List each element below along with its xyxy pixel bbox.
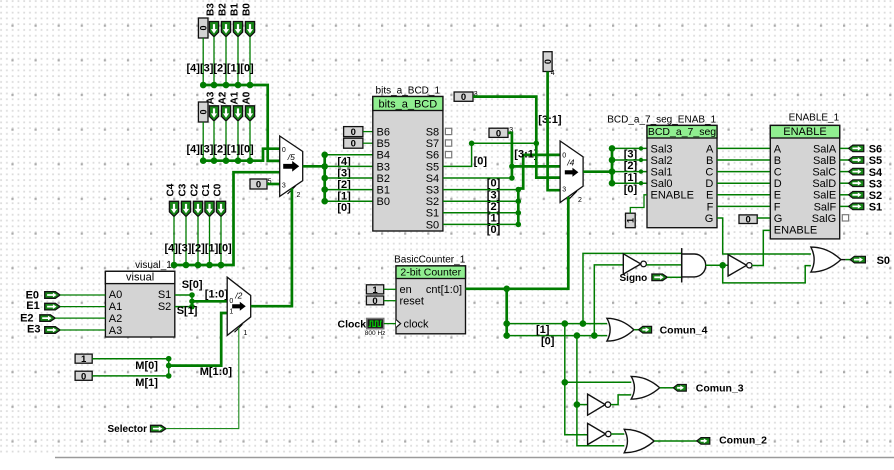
wire const to B6 bbox=[363, 131, 373, 133]
wire const4 to mux2 in3 bbox=[548, 72, 561, 191]
svg-text:S5: S5 bbox=[869, 155, 882, 167]
input pin E0 bbox=[45, 292, 60, 299]
output pin Comun_4 bbox=[639, 326, 652, 333]
svg-text:SalC: SalC bbox=[812, 167, 836, 179]
svg-text:D: D bbox=[774, 178, 782, 190]
wire const3a to mux2 in2 bbox=[473, 97, 560, 178]
junction row2 j1 bbox=[503, 332, 510, 339]
svg-text:0: 0 bbox=[351, 139, 356, 150]
svg-text:Sal1: Sal1 bbox=[651, 167, 673, 179]
svg-text:2: 2 bbox=[578, 197, 582, 204]
output pin S1 bbox=[849, 203, 864, 210]
junction B bus junction x226 bbox=[223, 82, 230, 89]
svg-text:0: 0 bbox=[745, 215, 750, 226]
svg-text:A3: A3 bbox=[109, 325, 122, 337]
svg-text:BasicCounter_1: BasicCounter_1 bbox=[394, 255, 466, 266]
unconnected stub SalG bbox=[842, 215, 848, 221]
svg-text:0: 0 bbox=[372, 296, 377, 307]
svg-text:S7: S7 bbox=[426, 138, 439, 150]
unconnected stub S7 bbox=[445, 140, 451, 146]
svg-text:A0: A0 bbox=[242, 91, 253, 104]
junction M j2 bbox=[166, 363, 172, 369]
svg-text:0: 0 bbox=[351, 127, 356, 138]
wire row bit1 bbox=[507, 323, 608, 325]
svg-text:4: 4 bbox=[551, 70, 555, 77]
wire splitter2 tap [1] bbox=[612, 171, 647, 173]
junction A bus junction x214 bbox=[211, 157, 218, 164]
svg-text:B2: B2 bbox=[218, 3, 229, 16]
subcircuit box BCD_a_7_seg_ENAB_1 bbox=[647, 125, 717, 227]
svg-text:A2: A2 bbox=[109, 313, 122, 325]
junction M j1 bbox=[166, 356, 172, 362]
junction splitter1 junction [4] bbox=[321, 152, 328, 159]
svg-text:SalB: SalB bbox=[813, 155, 836, 167]
svg-text:S0: S0 bbox=[877, 255, 890, 267]
subcircuit box bits_a_BCD_1 bbox=[373, 97, 443, 232]
wire const to G bbox=[757, 217, 770, 219]
junction B bus junction x203.2 bbox=[200, 82, 207, 89]
wire cnt tap spine bbox=[505, 289, 508, 336]
output pin Comun_2 bbox=[697, 438, 710, 445]
svg-text:A2: A2 bbox=[218, 91, 229, 104]
wire net D bbox=[717, 182, 770, 184]
svg-text:reset: reset bbox=[400, 296, 424, 308]
svg-text:M[0]: M[0] bbox=[135, 360, 158, 372]
input pin C2 bbox=[193, 201, 202, 216]
output pin S2 bbox=[849, 192, 864, 199]
output pin S3 bbox=[849, 180, 864, 187]
OR gate OR S0 bbox=[811, 247, 841, 272]
svg-text:A1: A1 bbox=[109, 301, 122, 313]
svg-text:C4: C4 bbox=[166, 183, 177, 196]
wire B2 to bus bbox=[225, 37, 227, 85]
svg-text:S5: S5 bbox=[426, 161, 439, 173]
svg-text:[0]: [0] bbox=[337, 202, 351, 214]
svg-text:[4][3][2][1][0]: [4][3][2][1][0] bbox=[187, 63, 255, 75]
svg-text:/2: /2 bbox=[234, 291, 242, 301]
wire splitter2 tap [0] bbox=[612, 182, 647, 184]
wire C1 to bus bbox=[209, 217, 211, 266]
wire SalX to pin S3 bbox=[840, 182, 849, 184]
wire S2 wire bbox=[175, 306, 192, 308]
wire SalX to pin S2 bbox=[840, 194, 849, 196]
input pin Selector bbox=[151, 425, 167, 432]
svg-text:B1: B1 bbox=[230, 3, 241, 16]
svg-text:B0: B0 bbox=[377, 196, 390, 208]
wire bit1 down to NOT3 bbox=[565, 324, 588, 435]
wire A2 to bus bbox=[225, 121, 227, 161]
svg-text:S6: S6 bbox=[869, 144, 882, 156]
svg-text:visual_1: visual_1 bbox=[135, 260, 172, 271]
wire M merge bbox=[168, 359, 170, 376]
svg-text:0: 0 bbox=[256, 180, 261, 191]
svg-text:Clock: Clock bbox=[338, 319, 367, 331]
wire splitter1 spine bbox=[323, 155, 326, 201]
wire bit0 down to OR Comun_2 bbox=[577, 336, 624, 446]
wire splitter1 tap [1] bbox=[325, 189, 373, 191]
svg-text:S0: S0 bbox=[426, 219, 439, 231]
wire Comun_2 out bbox=[654, 440, 697, 442]
input pin A1 bbox=[233, 106, 242, 121]
AND gate U1 bbox=[682, 248, 706, 282]
svg-text:S4: S4 bbox=[426, 173, 439, 185]
svg-text:800 Hz: 800 Hz bbox=[365, 330, 386, 337]
wire Signo pin to AND bbox=[667, 276, 681, 278]
svg-text:ENABLE: ENABLE bbox=[774, 225, 817, 237]
svg-text:bits_a_BCD: bits_a_BCD bbox=[378, 98, 437, 110]
svg-text:2-bit Counter: 2-bit Counter bbox=[400, 266, 461, 278]
svg-text:[4][3][2][1][0]: [4][3][2][1][0] bbox=[165, 243, 233, 255]
svg-text:3: 3 bbox=[282, 183, 286, 190]
wire net F bbox=[717, 205, 770, 207]
wire M1 wire bbox=[92, 375, 169, 377]
constant Cen1 bbox=[366, 285, 383, 296]
wire splitter2 spine bbox=[611, 148, 614, 183]
wire A1 to bus bbox=[237, 121, 239, 161]
svg-text:S[1]: S[1] bbox=[177, 305, 198, 317]
svg-text:Comun_3: Comun_3 bbox=[696, 383, 744, 395]
svg-text:[0]: [0] bbox=[541, 336, 555, 348]
subcircuit box visual_1 bbox=[105, 271, 174, 337]
svg-text:A0: A0 bbox=[109, 289, 122, 301]
wire S5 riser bbox=[443, 143, 536, 166]
svg-text:bits_a_BCD_1: bits_a_BCD_1 bbox=[376, 86, 441, 97]
svg-text:cnt[1:0]: cnt[1:0] bbox=[426, 284, 462, 296]
wire M0 wire bbox=[92, 358, 169, 360]
svg-text:S2: S2 bbox=[869, 190, 882, 202]
wire splitter1 tap [2] bbox=[325, 177, 373, 179]
unconnected stub S8 bbox=[445, 128, 451, 134]
wire const1 to BCD ENABLE bbox=[630, 195, 647, 213]
input pin B3 bbox=[209, 22, 218, 37]
wire M bus to mux3 bbox=[169, 313, 228, 366]
svg-text:[2]: [2] bbox=[487, 201, 501, 213]
wire const CB4 to bus bbox=[202, 38, 204, 85]
NOT gate N4 (Comun_2) bbox=[588, 423, 611, 444]
NOT gate N1 (Signo path) bbox=[623, 254, 646, 274]
svg-text:[1]: [1] bbox=[536, 324, 550, 336]
input pin E1 bbox=[45, 303, 60, 310]
svg-text:/4: /4 bbox=[566, 157, 574, 167]
svg-text:Comun_4: Comun_4 bbox=[660, 325, 708, 337]
wire B bus bbox=[203, 85, 280, 161]
wire S4 wire bbox=[443, 177, 512, 179]
junction S5 riser corner bbox=[469, 141, 475, 147]
svg-text:visual: visual bbox=[126, 271, 154, 283]
svg-text:B5: B5 bbox=[377, 138, 390, 150]
constant CA4 bbox=[198, 102, 208, 122]
constant CM1 bbox=[75, 354, 92, 365]
wire mux1 output bbox=[303, 165, 325, 168]
wire SalX to pin S4 bbox=[840, 171, 849, 173]
svg-text:B0: B0 bbox=[242, 3, 253, 16]
wire const3b+S4 to mux2 in1 bbox=[512, 165, 560, 168]
junction row2 j2 bbox=[574, 332, 581, 339]
output pin S5 bbox=[849, 157, 864, 164]
svg-text:E: E bbox=[774, 190, 781, 202]
wire AND detour to OR S0 bbox=[723, 265, 811, 283]
constant C0five bbox=[250, 179, 267, 191]
wire splitter1 tap [3] bbox=[325, 165, 373, 167]
clock input chevron bbox=[396, 320, 401, 328]
svg-text:S3: S3 bbox=[869, 178, 882, 190]
svg-text:E3: E3 bbox=[27, 324, 40, 336]
S0 gate output stub bbox=[841, 259, 846, 261]
junction B bus junction x250 bbox=[247, 82, 254, 89]
svg-text:[0]: [0] bbox=[487, 224, 501, 236]
svg-text:B: B bbox=[774, 155, 781, 167]
svg-text:[4][3][2][1][0]: [4][3][2][1][0] bbox=[187, 143, 255, 155]
wire S1 wire bbox=[175, 294, 192, 296]
svg-text:SalF: SalF bbox=[814, 201, 837, 213]
wire net A bbox=[717, 147, 770, 149]
junction AND out junction bbox=[719, 262, 726, 269]
svg-text:Selector: Selector bbox=[108, 424, 148, 435]
svg-text:C3: C3 bbox=[178, 183, 189, 196]
multiplexer MUX1 bbox=[280, 136, 303, 199]
junction A bus junction x238 bbox=[235, 157, 242, 164]
svg-text:C: C bbox=[774, 167, 782, 179]
svg-text:M[1]: M[1] bbox=[135, 377, 158, 389]
junction row1 j1 bbox=[503, 320, 510, 327]
svg-text:[3]: [3] bbox=[624, 149, 638, 161]
svg-text:S6: S6 bbox=[426, 150, 439, 162]
junction splitter1 junction [1] bbox=[321, 186, 328, 193]
junction B bus junction x238 bbox=[235, 82, 242, 89]
OR gate OR Comun_4 bbox=[607, 318, 634, 341]
constant CG0 bbox=[739, 215, 757, 226]
junction B bus junction x214 bbox=[211, 82, 218, 89]
svg-text:Sal2: Sal2 bbox=[651, 155, 673, 167]
svg-text:S1: S1 bbox=[426, 208, 439, 220]
wire SalX to pin S6 bbox=[840, 147, 849, 149]
svg-text:B3: B3 bbox=[206, 3, 217, 16]
junction const3b joins in1 bbox=[509, 164, 515, 170]
input pin C1 bbox=[205, 201, 214, 216]
wire Selector wire bbox=[166, 328, 239, 429]
junction S j3 bbox=[189, 304, 195, 310]
wire const to en bbox=[384, 288, 396, 290]
wire splitter1 tap [0] bbox=[325, 200, 373, 202]
wire S bus to mux3 bbox=[192, 300, 227, 303]
wire Comun_3 out bbox=[660, 387, 674, 389]
svg-text:Comun_2: Comun_2 bbox=[719, 434, 767, 446]
svg-text:[1]: [1] bbox=[487, 212, 501, 224]
wire splitter1 tap [4] bbox=[325, 154, 373, 156]
subcircuit box ENABLE_1 bbox=[770, 125, 839, 238]
wire C3 to bus bbox=[185, 217, 187, 266]
junction S2 tap bbox=[516, 198, 522, 204]
wire branch to OR Comun_3 bbox=[565, 381, 631, 383]
svg-text:A: A bbox=[706, 143, 714, 155]
svg-text:1: 1 bbox=[244, 330, 248, 337]
wire net B bbox=[717, 159, 770, 161]
junction S j1 bbox=[189, 292, 195, 298]
NOT gate N3 (Comun_3) bbox=[588, 394, 611, 415]
svg-text:[1]: [1] bbox=[624, 172, 638, 184]
svg-text:B4: B4 bbox=[377, 150, 390, 162]
svg-text:0: 0 bbox=[81, 371, 86, 382]
junction row1 j3 bbox=[580, 320, 587, 327]
svg-text:S1: S1 bbox=[869, 202, 882, 214]
multiplexer MUX2 bbox=[560, 141, 583, 204]
wire C4 to bus bbox=[173, 217, 175, 266]
junction C bus junction x209.5 bbox=[206, 262, 213, 269]
wire B1 to bus bbox=[237, 37, 239, 85]
wire rail bit1 to AND bbox=[583, 253, 681, 323]
input pin C3 bbox=[181, 201, 190, 216]
wire C0 to bus bbox=[220, 217, 222, 266]
svg-text:clock: clock bbox=[404, 319, 430, 331]
wire E2 wire bbox=[55, 317, 105, 319]
wire const to B5 bbox=[363, 142, 373, 144]
svg-text:S2: S2 bbox=[426, 196, 439, 208]
input pin B1 bbox=[233, 22, 242, 37]
constant CB5 bbox=[344, 138, 363, 150]
svg-text:S3: S3 bbox=[426, 185, 439, 197]
junction M j3 bbox=[166, 373, 172, 379]
junction splitter1 junction [2] bbox=[321, 175, 328, 182]
input pin B0 bbox=[245, 22, 254, 37]
junction row1 j2 bbox=[562, 320, 569, 327]
constant Cmid3a bbox=[454, 92, 473, 103]
svg-text:Signo: Signo bbox=[620, 273, 648, 284]
wire S3 wire bbox=[443, 189, 518, 191]
svg-text:/5: /5 bbox=[287, 152, 295, 162]
svg-text:0: 0 bbox=[199, 25, 209, 30]
wire AND out bbox=[705, 264, 728, 266]
wire SalX to pin S5 bbox=[840, 159, 849, 161]
wire A3 to bus bbox=[213, 121, 215, 161]
wire const to reset bbox=[384, 300, 396, 302]
wire const CA4 to bus bbox=[202, 122, 204, 161]
svg-text:0: 0 bbox=[229, 298, 233, 305]
svg-text:0: 0 bbox=[543, 59, 553, 64]
bottom window edge line bbox=[55, 457, 894, 459]
svg-text:BCD_a_7_seg: BCD_a_7_seg bbox=[648, 126, 716, 138]
input pin A0 bbox=[245, 106, 254, 121]
svg-text:D: D bbox=[705, 178, 713, 190]
wire C2 to bus bbox=[197, 217, 199, 266]
wire C bus bbox=[174, 172, 280, 265]
svg-text:2: 2 bbox=[297, 192, 301, 199]
wire SalX to pin S1 bbox=[840, 205, 849, 207]
junction A bus junction x226 bbox=[223, 157, 230, 164]
svg-text:E: E bbox=[706, 190, 713, 202]
wire splitter2 tap [2] bbox=[612, 159, 647, 161]
junction S3 tap bbox=[516, 187, 522, 193]
subcircuit box BasicCounter_1 bbox=[396, 266, 466, 334]
junction C bus junction x198 bbox=[195, 262, 202, 269]
svg-text:1: 1 bbox=[626, 218, 636, 223]
svg-text:G: G bbox=[705, 213, 714, 225]
junction branch NOT2 in bbox=[574, 401, 581, 408]
wire S0 out bbox=[846, 259, 851, 261]
svg-text:[0]: [0] bbox=[474, 156, 488, 168]
svg-text:B2: B2 bbox=[377, 173, 390, 185]
svg-text:A: A bbox=[774, 143, 782, 155]
wire E3 wire bbox=[60, 329, 105, 331]
junction splitter2 junction [0] bbox=[609, 180, 616, 187]
wire net G down bbox=[717, 218, 811, 254]
svg-text:A1: A1 bbox=[230, 91, 241, 104]
wire NOT4 out to OR bbox=[611, 433, 624, 435]
svg-text:[3:1]: [3:1] bbox=[538, 114, 562, 126]
wire NOT3 out to OR bbox=[611, 395, 632, 405]
svg-text:SalG: SalG bbox=[812, 213, 836, 225]
junction A bus junction x250 bbox=[247, 157, 254, 164]
svg-text:0: 0 bbox=[496, 128, 501, 139]
svg-text:B: B bbox=[706, 155, 713, 167]
junction splitter2 junction [3] bbox=[609, 145, 616, 152]
junction splitter1 junction [0] bbox=[321, 198, 328, 205]
OR gate OR Comun_3 bbox=[631, 376, 660, 399]
junction splitter2 junction [2] bbox=[609, 157, 616, 164]
svg-text:[2]: [2] bbox=[624, 160, 638, 172]
junction cnt tap junction bbox=[503, 286, 510, 293]
junction row2 j3 bbox=[591, 332, 598, 339]
input pin E2 bbox=[40, 315, 55, 322]
wire mux2 output bbox=[583, 170, 612, 173]
wire E1 wire bbox=[60, 306, 105, 308]
wire bit0 to NOT Signo bbox=[594, 265, 623, 336]
svg-text:C0: C0 bbox=[213, 183, 224, 196]
constant CB4 bbox=[198, 18, 208, 38]
constant CM0 bbox=[75, 371, 92, 382]
junction const3b joins S4 bbox=[509, 175, 515, 181]
constant CEN1 bbox=[626, 213, 636, 228]
OR gate OR Comun_2 bbox=[624, 429, 654, 453]
wire cnt bus bbox=[466, 197, 569, 289]
svg-text:S8: S8 bbox=[426, 127, 439, 139]
multiplexer MUX3 bbox=[227, 277, 251, 337]
svg-text:F: F bbox=[774, 201, 781, 213]
svg-text:M[1:0]: M[1:0] bbox=[200, 366, 233, 378]
svg-text:ENABLE: ENABLE bbox=[783, 126, 826, 138]
junction S1 tap bbox=[516, 210, 522, 216]
svg-text:SalA: SalA bbox=[813, 143, 837, 155]
junction S0 tap bbox=[516, 222, 522, 228]
constant Crst0 bbox=[366, 296, 383, 307]
input pin B2 bbox=[221, 22, 230, 37]
input pin A3 bbox=[209, 106, 218, 121]
svg-text:ENABLE_1: ENABLE_1 bbox=[789, 113, 840, 124]
svg-text:G: G bbox=[774, 213, 783, 225]
svg-text:[0]: [0] bbox=[487, 178, 501, 190]
svg-text:en: en bbox=[400, 284, 412, 296]
input pin C0 bbox=[216, 201, 225, 216]
svg-text:B1: B1 bbox=[377, 185, 390, 197]
NOT gate N2 (after AND) bbox=[728, 255, 752, 276]
junction C bus junction x174 bbox=[171, 262, 178, 269]
wire clock to counter bbox=[384, 323, 396, 325]
svg-text:[0]: [0] bbox=[624, 183, 638, 195]
output pin Comun_3 bbox=[673, 385, 686, 392]
svg-text:BCD_a_7_seg_ENAB_1: BCD_a_7_seg_ENAB_1 bbox=[607, 114, 716, 125]
wire NOT2 out to ENABLE bbox=[752, 230, 770, 265]
svg-text:[3]: [3] bbox=[487, 190, 501, 202]
junction splitter1 junction [3] bbox=[321, 163, 328, 170]
svg-text:SalD: SalD bbox=[812, 178, 836, 190]
svg-text:[1:0]: [1:0] bbox=[205, 289, 229, 301]
svg-text:Sal0: Sal0 bbox=[651, 178, 673, 190]
wire S merge bbox=[191, 295, 193, 307]
svg-text:0: 0 bbox=[282, 147, 286, 154]
svg-text:C: C bbox=[705, 167, 713, 179]
svg-text:B6: B6 bbox=[377, 127, 390, 139]
clock generator bbox=[367, 319, 384, 329]
wire const to mux1 in3 bbox=[267, 183, 280, 186]
